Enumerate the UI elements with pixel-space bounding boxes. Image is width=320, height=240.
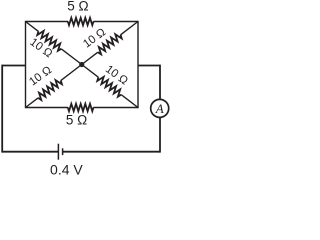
wire outer left vertical xyxy=(1,65,3,153)
wire right edge of bridge xyxy=(137,21,139,108)
wire top edge right segment xyxy=(93,21,138,23)
wire diagonal from top-right resistor xyxy=(121,22,138,35)
wire top edge left segment xyxy=(26,21,69,23)
battery cell short plate xyxy=(62,148,64,155)
wire bottom edge left segment xyxy=(26,107,69,109)
resistor 10 ohm top-right xyxy=(98,34,122,54)
resistor 10 ohm bottom-right xyxy=(97,77,121,97)
battery cell long plate xyxy=(57,144,59,160)
wire outer right vertical upper xyxy=(159,65,161,100)
wire diagonal to top-left resistor xyxy=(26,22,39,32)
wire diagonal from bottom-right resistor xyxy=(121,95,138,108)
svg-text:5 Ω: 5 Ω xyxy=(67,0,88,14)
resistor 5 ohm bottom xyxy=(68,104,94,111)
wire left tap horizontal xyxy=(2,65,25,67)
wire bottom left segment xyxy=(2,151,58,153)
wire diagonal to top-right resistor xyxy=(82,52,98,64)
svg-text:A: A xyxy=(155,101,164,116)
svg-text:10 Ω: 10 Ω xyxy=(27,64,54,88)
wire left edge of bridge xyxy=(25,21,27,108)
wire bottom edge right segment xyxy=(93,107,138,109)
wire diagonal from top-left resistor xyxy=(61,49,82,65)
svg-text:5 Ω: 5 Ω xyxy=(66,112,87,127)
resistor 5 ohm top xyxy=(68,18,94,25)
wire diagonal from bottom-left resistor xyxy=(61,65,82,81)
wire diagonal to bottom-left resistor xyxy=(26,98,39,108)
ammeter A xyxy=(151,99,169,117)
resistor 10 ohm bottom-left xyxy=(38,80,62,100)
wire right tap horizontal xyxy=(138,65,160,67)
wire diagonal to bottom-right resistor xyxy=(82,65,99,78)
resistor 10 ohm top-left xyxy=(37,31,61,51)
node center junction xyxy=(79,62,84,67)
svg-text:0.4 V: 0.4 V xyxy=(50,162,83,178)
wire bottom right segment xyxy=(63,151,160,153)
wire outer right vertical lower xyxy=(159,117,161,152)
